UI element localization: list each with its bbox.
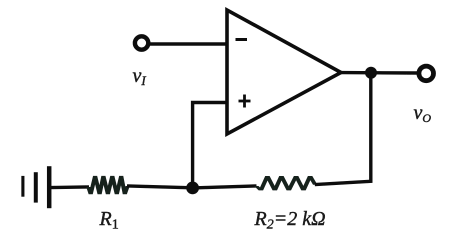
resistor R1 (zigzag): [86, 176, 130, 194]
resistor R2 (zigzag): [254, 176, 317, 190]
wire from R2 up to output node: [315, 73, 371, 185]
op-amp U1 triangle body: [227, 10, 341, 134]
op-amp non-inverting input plus sign: [239, 95, 251, 108]
wire from node A to resistor R2: [193, 186, 257, 188]
node B (output junction dot): [365, 67, 377, 79]
wire from R1 to node A: [127, 186, 193, 188]
wire from op-amp output to output terminal: [341, 71, 418, 75]
svg-text:R2=2 kΩ: R2=2 kΩ: [254, 208, 326, 233]
wire from input terminal to inverting input: [147, 42, 227, 45]
wire from non-inverting input down to node A: [193, 103, 227, 188]
output terminal (open circle): [419, 66, 434, 81]
input terminal (open circle): [135, 36, 148, 49]
ground (rotated earth symbol, three bars): [23, 166, 49, 208]
node A (junction dot): [186, 182, 199, 195]
wire from ground to resistor R1: [50, 185, 89, 189]
op-amp inverting input minus sign: [236, 38, 248, 41]
